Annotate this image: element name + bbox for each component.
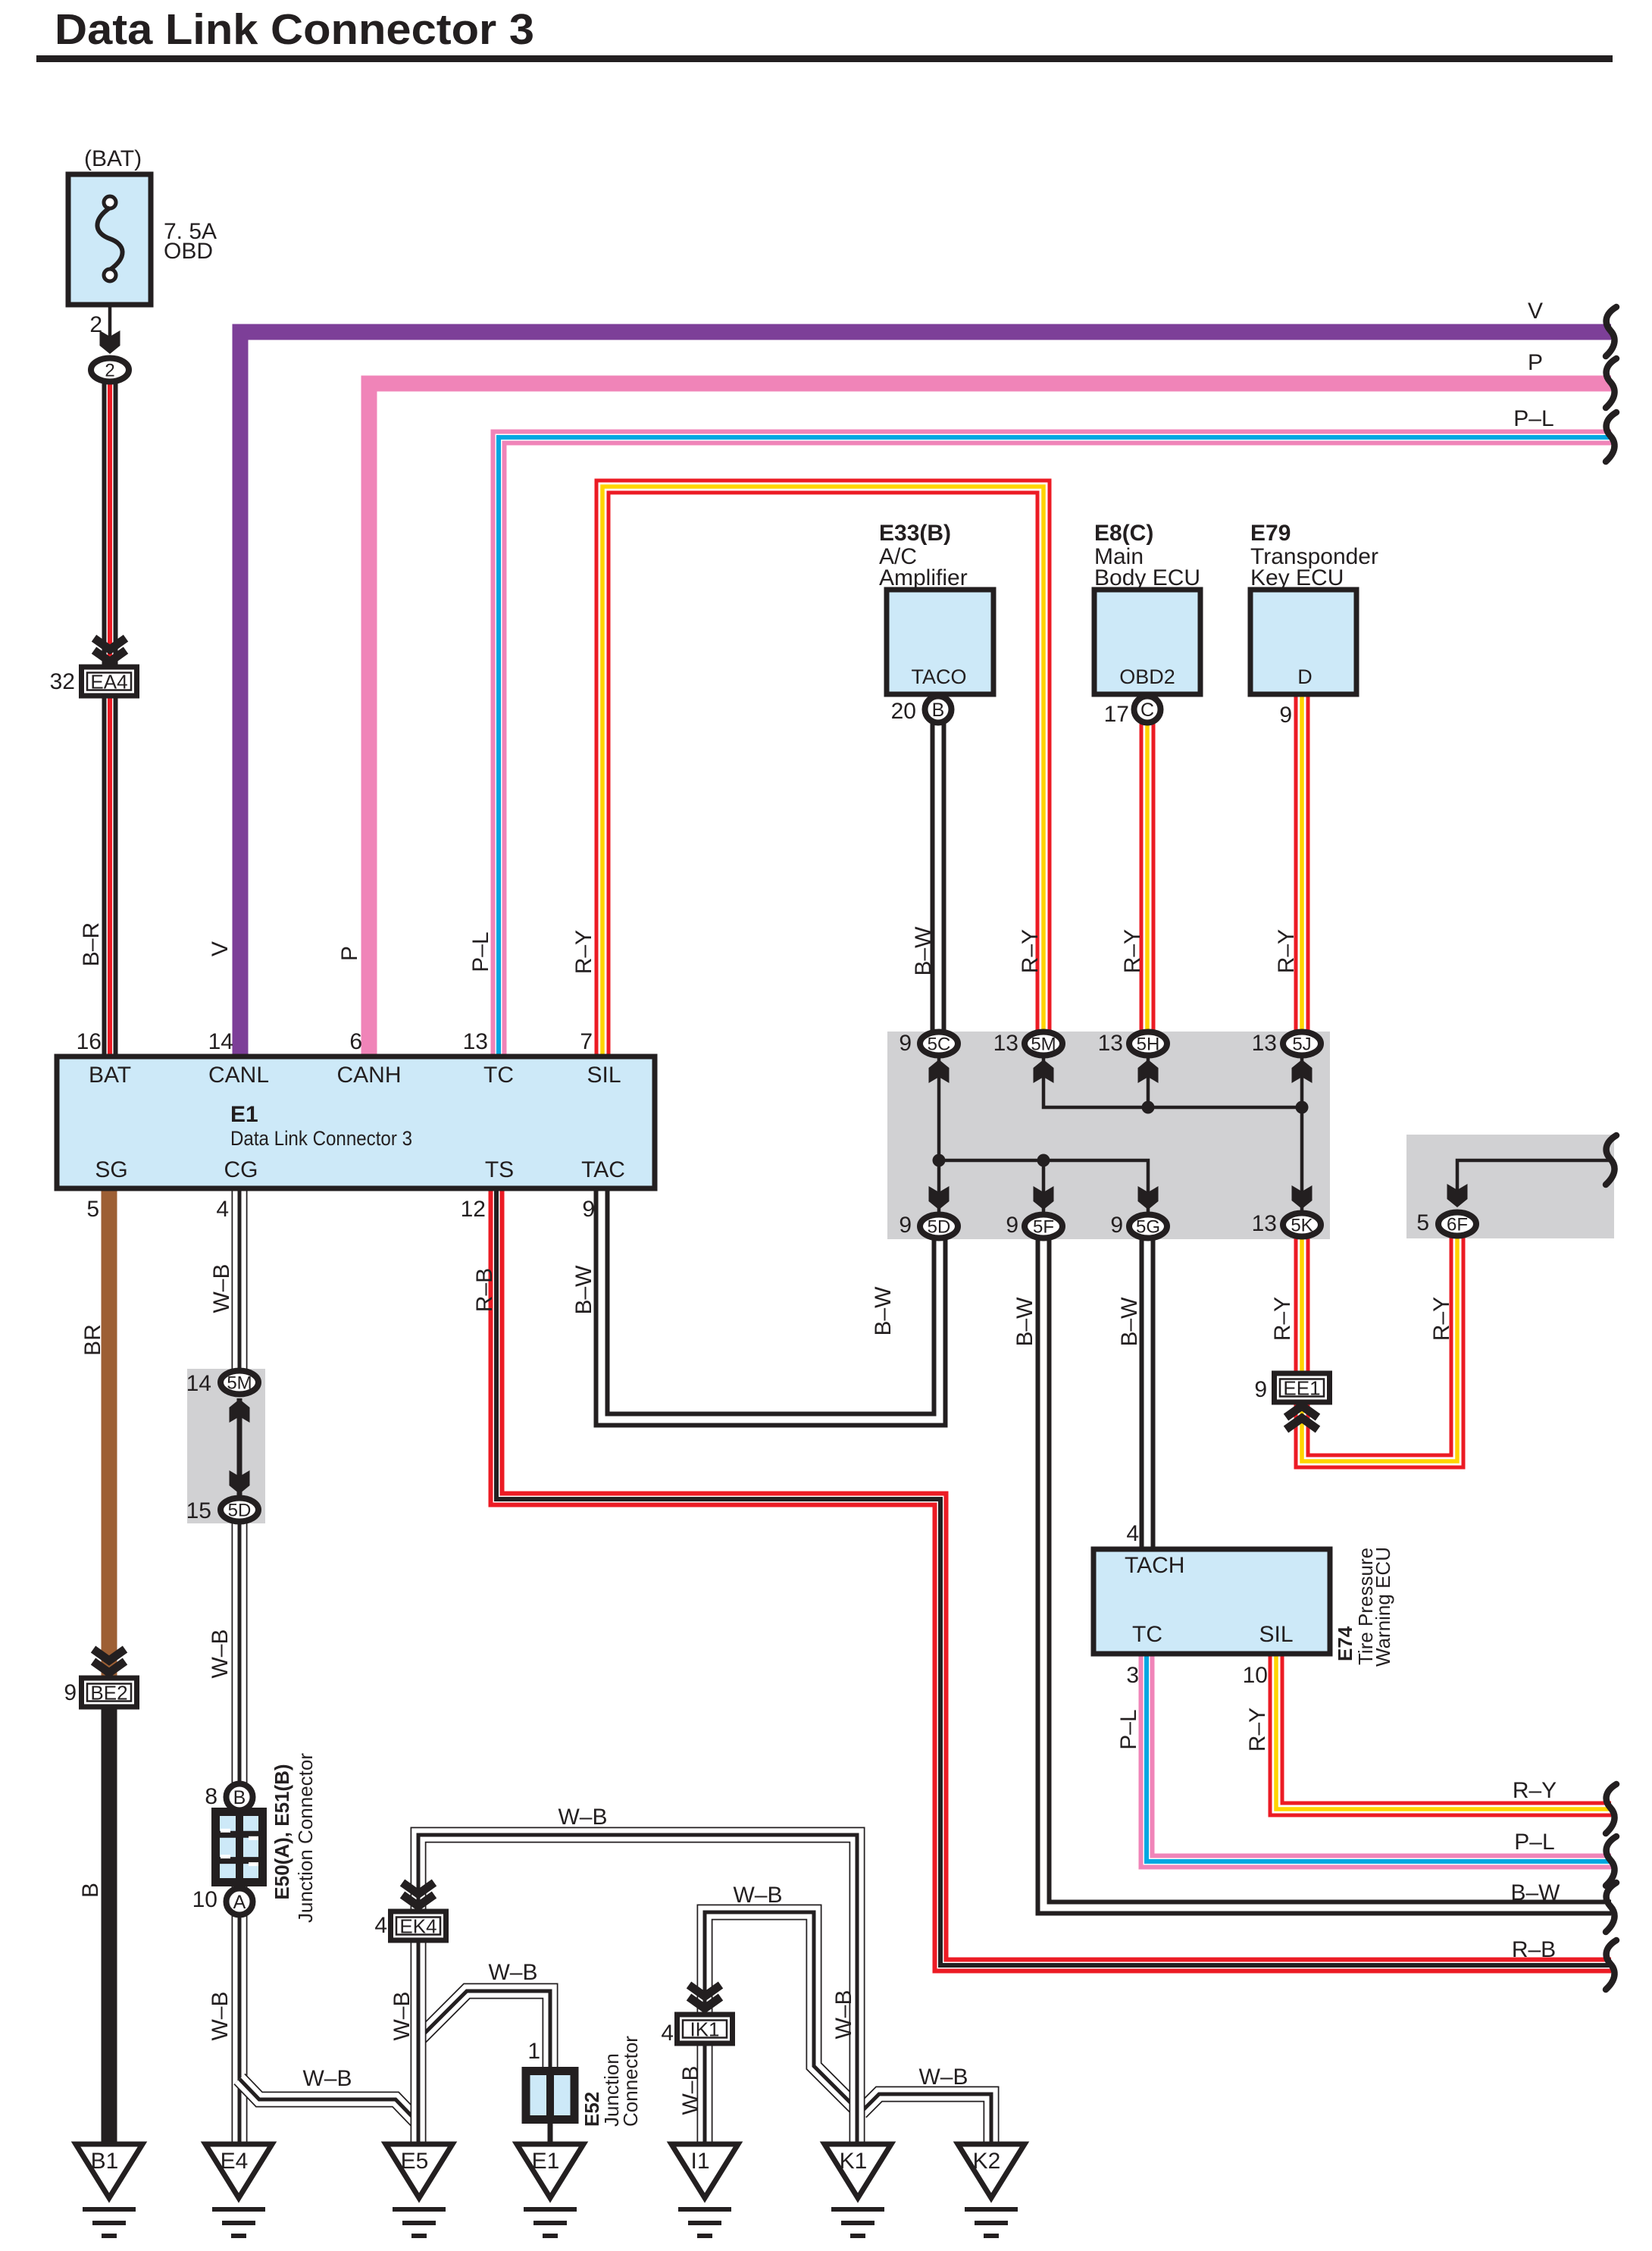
svg-text:2: 2	[105, 361, 114, 381]
svg-text:E50(A), E51(B): E50(A), E51(B)	[271, 1764, 293, 1899]
svg-text:(BAT): (BAT)	[84, 146, 142, 171]
svg-text:B–W: B–W	[1510, 1880, 1560, 1905]
svg-text:E5: E5	[401, 2149, 429, 2174]
svg-text:Warning ECU: Warning ECU	[1372, 1547, 1394, 1667]
svg-text:EA4: EA4	[90, 671, 127, 693]
svg-text:R–Y: R–Y	[1270, 1297, 1295, 1341]
svg-text:B–W: B–W	[911, 926, 936, 976]
svg-text:B–W: B–W	[871, 1286, 896, 1336]
svg-text:CANH: CANH	[336, 1063, 401, 1088]
svg-text:W–B: W–B	[678, 2065, 703, 2115]
svg-text:10: 10	[1243, 1663, 1268, 1688]
svg-text:5H: 5H	[1137, 1035, 1160, 1055]
svg-text:P: P	[1528, 350, 1543, 375]
svg-text:5G: 5G	[1136, 1217, 1160, 1238]
svg-text:9: 9	[64, 1680, 77, 1705]
svg-text:13: 13	[1252, 1031, 1277, 1056]
svg-text:12: 12	[461, 1197, 486, 1222]
svg-text:R–B: R–B	[472, 1268, 497, 1312]
svg-text:BE2: BE2	[90, 1682, 127, 1705]
svg-text:4: 4	[216, 1197, 229, 1222]
svg-text:4: 4	[1126, 1521, 1139, 1546]
svg-text:B–W: B–W	[1117, 1297, 1142, 1347]
svg-text:Connector: Connector	[619, 2036, 642, 2127]
svg-text:E4: E4	[221, 2149, 249, 2174]
svg-text:R–Y: R–Y	[1274, 929, 1299, 973]
svg-text:R–Y: R–Y	[1120, 929, 1145, 973]
svg-text:Junction Connector: Junction Connector	[294, 1753, 317, 1923]
svg-text:E1: E1	[230, 1102, 258, 1127]
svg-text:2: 2	[89, 312, 102, 337]
svg-text:8: 8	[205, 1784, 217, 1809]
svg-text:TS: TS	[485, 1157, 514, 1182]
svg-text:13: 13	[1098, 1031, 1123, 1056]
svg-text:P–L: P–L	[1116, 1709, 1141, 1749]
svg-text:R–Y: R–Y	[1513, 1778, 1557, 1803]
svg-text:SIL: SIL	[587, 1063, 621, 1088]
svg-text:20: 20	[891, 699, 916, 724]
svg-text:13: 13	[1252, 1211, 1277, 1236]
svg-text:SG: SG	[95, 1157, 127, 1182]
svg-text:OBD: OBD	[164, 239, 213, 264]
svg-text:TAC: TAC	[581, 1157, 625, 1182]
svg-text:5D: 5D	[928, 1217, 951, 1238]
svg-text:15: 15	[186, 1498, 211, 1523]
svg-text:B: B	[78, 1883, 103, 1898]
svg-text:V: V	[208, 941, 233, 956]
svg-text:W–B: W–B	[209, 1263, 234, 1313]
svg-text:B–W: B–W	[1012, 1297, 1037, 1347]
svg-text:6F: 6F	[1447, 1215, 1468, 1235]
svg-text:17: 17	[1104, 702, 1129, 727]
svg-text:A: A	[233, 1892, 246, 1913]
svg-text:9: 9	[899, 1031, 912, 1056]
svg-text:5F: 5F	[1033, 1217, 1054, 1238]
svg-text:14: 14	[208, 1029, 233, 1054]
svg-text:9: 9	[1006, 1213, 1018, 1238]
svg-text:5C: 5C	[928, 1035, 951, 1055]
svg-text:Data Link Connector 3: Data Link Connector 3	[230, 1127, 412, 1150]
svg-text:D: D	[1297, 665, 1313, 688]
svg-text:4: 4	[661, 2021, 674, 2046]
svg-text:P: P	[337, 946, 362, 961]
svg-text:14: 14	[186, 1371, 211, 1396]
svg-text:10: 10	[192, 1887, 217, 1912]
svg-text:IK1: IK1	[690, 2018, 719, 2041]
svg-text:R–Y: R–Y	[571, 930, 596, 974]
svg-text:B: B	[932, 700, 945, 721]
svg-text:W–B: W–B	[733, 1883, 782, 1908]
svg-text:Data Link Connector 3: Data Link Connector 3	[55, 5, 534, 54]
svg-text:5M: 5M	[227, 1373, 252, 1394]
svg-text:P–L: P–L	[1514, 1830, 1554, 1855]
svg-text:Key ECU: Key ECU	[1250, 565, 1344, 590]
svg-text:9: 9	[899, 1213, 912, 1238]
svg-text:5J: 5J	[1292, 1035, 1311, 1055]
svg-text:R–Y: R–Y	[1245, 1708, 1270, 1752]
svg-text:Body ECU: Body ECU	[1094, 565, 1200, 590]
svg-text:13: 13	[993, 1031, 1018, 1056]
svg-text:B–W: B–W	[571, 1265, 596, 1315]
svg-text:5: 5	[1416, 1210, 1429, 1235]
svg-text:3: 3	[1126, 1663, 1139, 1688]
svg-text:BAT: BAT	[89, 1063, 131, 1088]
svg-text:EE1: EE1	[1283, 1377, 1320, 1400]
svg-text:V: V	[1528, 299, 1543, 324]
svg-text:OBD2: OBD2	[1119, 665, 1175, 688]
svg-text:Amplifier: Amplifier	[879, 565, 968, 590]
svg-text:W–B: W–B	[208, 1629, 233, 1678]
svg-text:R–B: R–B	[1512, 1937, 1556, 1962]
svg-text:K2: K2	[973, 2149, 1001, 2174]
svg-text:B1: B1	[91, 2149, 119, 2174]
svg-text:P–L: P–L	[1513, 406, 1553, 431]
svg-text:B–R: B–R	[79, 922, 104, 966]
svg-text:K1: K1	[840, 2149, 868, 2174]
svg-text:16: 16	[77, 1029, 102, 1054]
svg-text:TC: TC	[483, 1063, 514, 1088]
svg-text:R–Y: R–Y	[1429, 1297, 1454, 1341]
svg-text:5K: 5K	[1291, 1216, 1313, 1236]
svg-text:W–B: W–B	[302, 2066, 352, 2091]
svg-text:9: 9	[582, 1197, 595, 1222]
svg-text:4: 4	[374, 1913, 387, 1938]
svg-text:B: B	[233, 1787, 246, 1808]
svg-text:13: 13	[463, 1029, 488, 1054]
svg-text:CG: CG	[224, 1157, 258, 1182]
svg-text:W–B: W–B	[918, 2065, 968, 2090]
svg-text:W–B: W–B	[831, 1990, 856, 2039]
svg-text:SIL: SIL	[1259, 1622, 1293, 1647]
svg-text:5: 5	[86, 1197, 99, 1222]
svg-text:BR: BR	[80, 1324, 105, 1356]
svg-text:5M: 5M	[1031, 1035, 1056, 1055]
svg-text:1: 1	[527, 2039, 540, 2064]
svg-text:CANL: CANL	[208, 1063, 269, 1088]
svg-text:W–B: W–B	[488, 1960, 537, 1985]
svg-text:W–B: W–B	[208, 1991, 233, 2040]
svg-text:W–B: W–B	[390, 1991, 415, 2040]
svg-text:5D: 5D	[228, 1501, 252, 1521]
svg-text:E33(B): E33(B)	[879, 521, 951, 546]
svg-text:TACH: TACH	[1125, 1553, 1184, 1578]
svg-text:P–L: P–L	[468, 931, 493, 972]
svg-text:9: 9	[1254, 1377, 1267, 1402]
svg-text:TACO: TACO	[912, 665, 967, 688]
svg-text:E8(C): E8(C)	[1094, 521, 1153, 546]
svg-text:9: 9	[1279, 703, 1292, 728]
svg-text:32: 32	[50, 669, 75, 694]
svg-text:E74: E74	[1334, 1626, 1356, 1661]
svg-text:7: 7	[580, 1029, 593, 1054]
svg-text:C: C	[1140, 700, 1154, 721]
svg-text:I1: I1	[690, 2149, 709, 2174]
svg-text:9: 9	[1110, 1213, 1123, 1238]
svg-text:E79: E79	[1250, 521, 1291, 546]
svg-text:EK4: EK4	[399, 1915, 436, 1938]
svg-text:6: 6	[349, 1029, 362, 1054]
svg-text:E1: E1	[532, 2149, 560, 2174]
svg-text:W–B: W–B	[558, 1805, 607, 1830]
svg-text:TC: TC	[1132, 1622, 1162, 1647]
svg-text:R–Y: R–Y	[1018, 929, 1043, 973]
